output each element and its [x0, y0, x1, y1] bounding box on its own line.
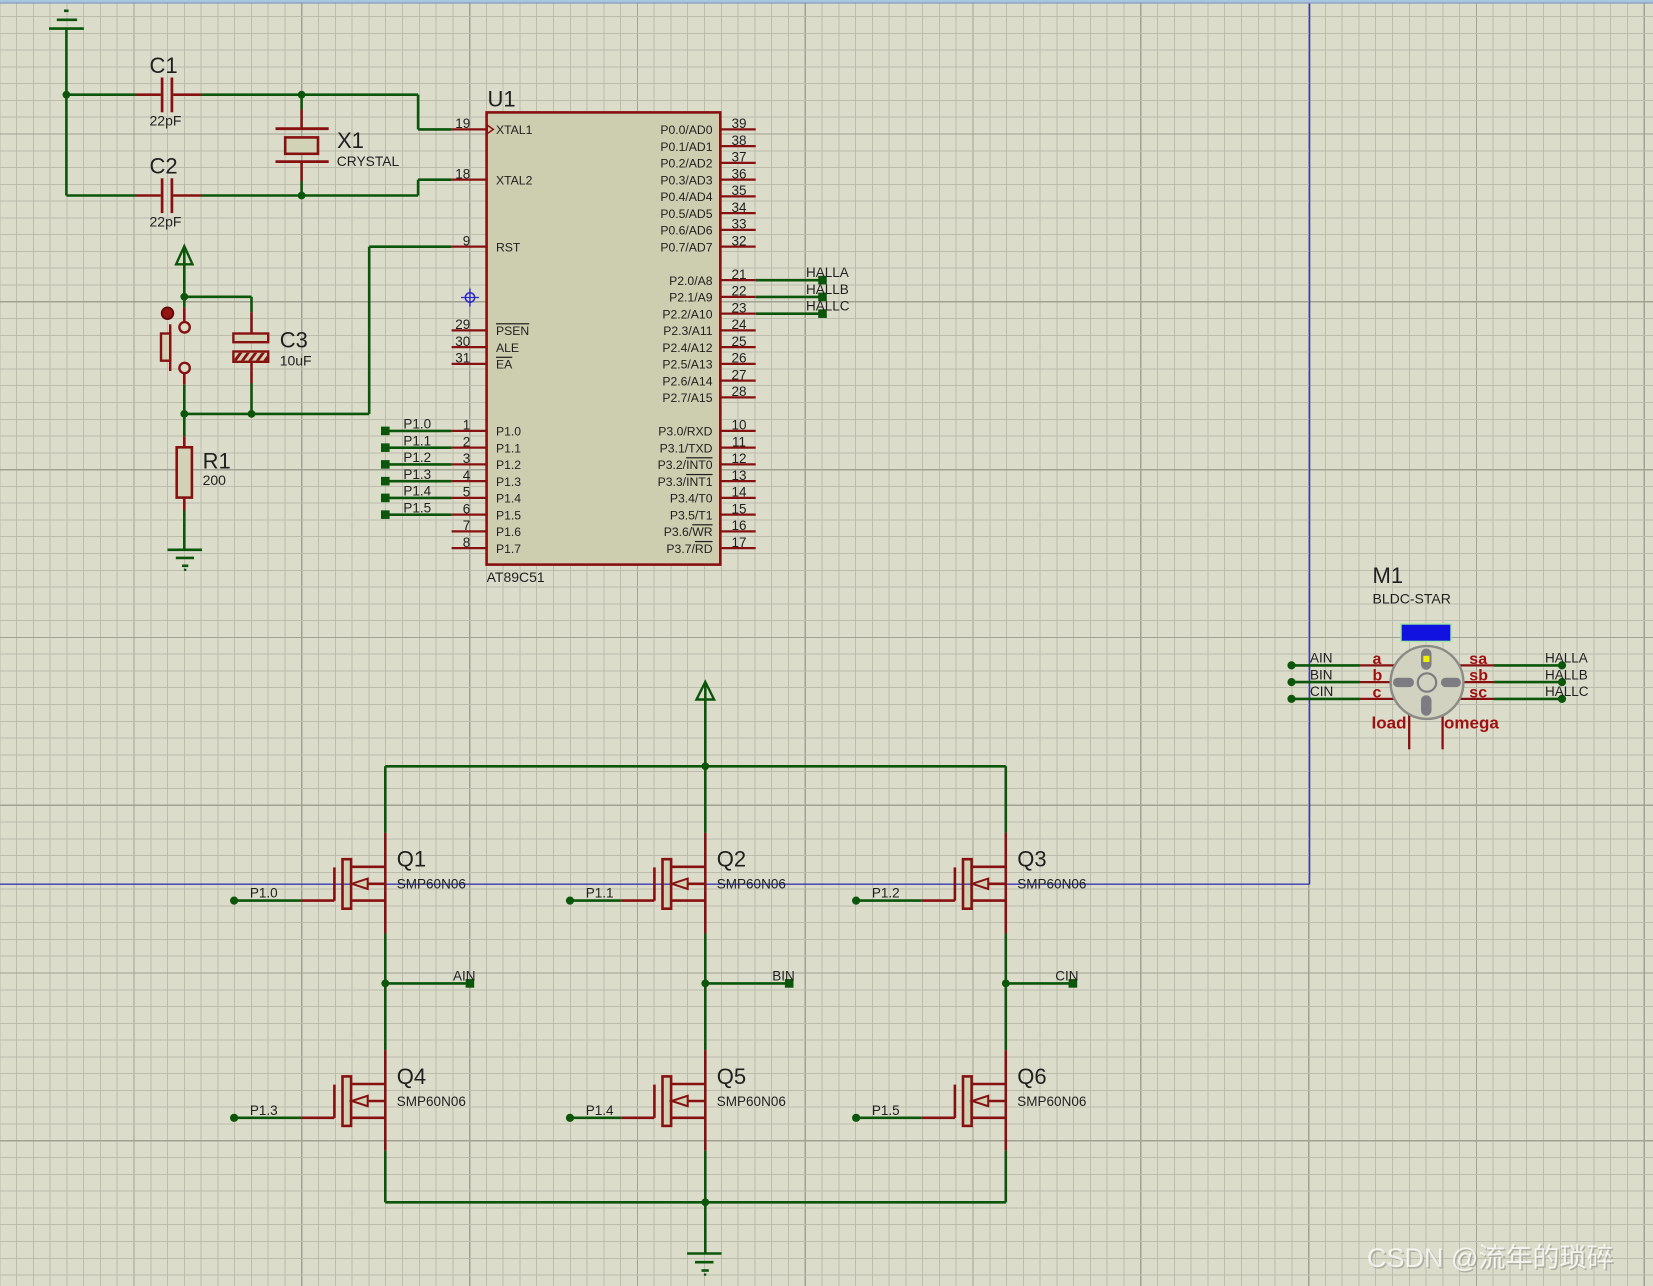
svg-text:P1.3: P1.3 — [250, 1103, 278, 1118]
svg-text:P0.2/AD2: P0.2/AD2 — [660, 157, 712, 171]
svg-text:P1.1: P1.1 — [403, 433, 431, 448]
svg-text:AIN: AIN — [1310, 651, 1333, 666]
svg-text:b: b — [1373, 668, 1383, 685]
svg-text:c: c — [1373, 685, 1382, 702]
svg-text:P2.2/A10: P2.2/A10 — [662, 307, 712, 321]
svg-text:P0.7/AD7: P0.7/AD7 — [660, 240, 712, 254]
svg-text:32: 32 — [731, 233, 746, 248]
svg-text:EA: EA — [496, 358, 513, 372]
svg-text:P2.1/A9: P2.1/A9 — [669, 291, 713, 305]
svg-text:C1: C1 — [150, 53, 178, 78]
svg-text:Q4: Q4 — [397, 1064, 426, 1089]
svg-text:sb: sb — [1469, 668, 1488, 685]
svg-text:12: 12 — [731, 451, 746, 466]
svg-text:SMP60N06: SMP60N06 — [1017, 876, 1086, 891]
svg-text:P1.0: P1.0 — [496, 425, 521, 439]
svg-text:P1.4: P1.4 — [403, 484, 431, 499]
svg-text:HALLB: HALLB — [806, 282, 849, 297]
svg-text:M1: M1 — [1373, 563, 1404, 588]
svg-text:AIN: AIN — [453, 969, 476, 984]
svg-text:P0.5/AD5: P0.5/AD5 — [660, 207, 712, 221]
svg-text:P2.3/A11: P2.3/A11 — [663, 324, 712, 338]
svg-text:SMP60N06: SMP60N06 — [1017, 1094, 1086, 1109]
svg-text:27: 27 — [731, 367, 746, 382]
svg-text:CRYSTAL: CRYSTAL — [337, 154, 400, 169]
svg-text:15: 15 — [731, 501, 746, 516]
svg-text:HALLC: HALLC — [806, 299, 850, 314]
svg-text:P3.1/TXD: P3.1/TXD — [660, 441, 713, 455]
svg-text:P0.1/AD1: P0.1/AD1 — [660, 140, 712, 154]
svg-text:39: 39 — [731, 116, 746, 131]
svg-text:22pF: 22pF — [150, 213, 182, 229]
svg-text:6: 6 — [463, 501, 471, 516]
svg-text:P2.5/A13: P2.5/A13 — [662, 358, 712, 372]
svg-text:14: 14 — [731, 485, 747, 500]
svg-text:X1: X1 — [337, 128, 364, 153]
svg-text:P1.5: P1.5 — [496, 508, 521, 522]
svg-text:Q1: Q1 — [397, 846, 426, 871]
svg-text:Q5: Q5 — [717, 1064, 746, 1089]
svg-text:R1: R1 — [203, 448, 231, 473]
svg-text:23: 23 — [731, 300, 746, 315]
svg-text:HALLB: HALLB — [1545, 667, 1588, 682]
svg-text:7: 7 — [463, 518, 471, 533]
svg-text:load: load — [1372, 713, 1407, 732]
svg-text:8: 8 — [463, 535, 471, 550]
svg-text:HALLA: HALLA — [806, 265, 849, 280]
svg-text:Q3: Q3 — [1017, 846, 1046, 871]
svg-text:BIN: BIN — [772, 969, 795, 984]
svg-text:30: 30 — [455, 334, 470, 349]
svg-text:SMP60N06: SMP60N06 — [397, 876, 466, 891]
svg-text:SMP60N06: SMP60N06 — [397, 1094, 466, 1109]
svg-text:P2.7/A15: P2.7/A15 — [662, 391, 712, 405]
svg-text:P1.1: P1.1 — [586, 886, 614, 901]
svg-text:P3.4/T0: P3.4/T0 — [670, 492, 713, 506]
svg-text:a: a — [1373, 651, 1382, 668]
svg-text:P1.2: P1.2 — [872, 886, 900, 901]
svg-text:P3.7/RD: P3.7/RD — [666, 542, 712, 556]
svg-text:CIN: CIN — [1310, 684, 1333, 699]
svg-text:10: 10 — [731, 418, 746, 433]
svg-text:2: 2 — [463, 434, 471, 449]
svg-text:17: 17 — [731, 535, 746, 550]
svg-text:13: 13 — [731, 468, 746, 483]
svg-text:Q2: Q2 — [717, 846, 746, 871]
svg-text:3: 3 — [463, 451, 471, 466]
svg-text:36: 36 — [731, 166, 746, 181]
svg-text:26: 26 — [731, 351, 746, 366]
svg-text:RST: RST — [496, 240, 521, 254]
svg-text:HALLA: HALLA — [1545, 651, 1588, 666]
svg-text:35: 35 — [731, 183, 746, 198]
svg-text:19: 19 — [455, 116, 470, 131]
svg-text:1: 1 — [463, 418, 471, 433]
svg-text:P1.0: P1.0 — [403, 417, 431, 432]
svg-text:P1.4: P1.4 — [496, 492, 521, 506]
svg-text:22pF: 22pF — [150, 113, 182, 129]
svg-text:9: 9 — [463, 233, 471, 248]
svg-text:34: 34 — [731, 200, 747, 215]
svg-text:10uF: 10uF — [280, 352, 312, 368]
svg-text:5: 5 — [463, 485, 471, 500]
svg-text:P0.0/AD0: P0.0/AD0 — [660, 123, 712, 137]
svg-text:P3.5/T1: P3.5/T1 — [670, 508, 713, 522]
svg-text:ALE: ALE — [496, 341, 519, 355]
svg-text:C2: C2 — [150, 154, 178, 179]
svg-text:SMP60N06: SMP60N06 — [717, 1094, 786, 1109]
svg-text:P1.7: P1.7 — [496, 542, 521, 556]
svg-text:11: 11 — [732, 434, 746, 449]
svg-text:28: 28 — [731, 384, 746, 399]
svg-text:C3: C3 — [280, 328, 308, 353]
svg-text:P0.4/AD4: P0.4/AD4 — [660, 190, 712, 204]
svg-text:P2.4/A12: P2.4/A12 — [662, 341, 712, 355]
svg-text:P2.0/A8: P2.0/A8 — [669, 274, 713, 288]
svg-text:P1.2: P1.2 — [403, 450, 431, 465]
svg-text:U1: U1 — [488, 87, 516, 112]
svg-text:XTAL2: XTAL2 — [496, 173, 533, 187]
svg-text:P1.3: P1.3 — [403, 467, 431, 482]
svg-text:38: 38 — [731, 133, 746, 148]
svg-text:AT89C51: AT89C51 — [487, 569, 545, 585]
svg-text:omega: omega — [1444, 713, 1499, 732]
svg-text:P0.3/AD3: P0.3/AD3 — [660, 173, 712, 187]
svg-text:P1.4: P1.4 — [586, 1103, 614, 1118]
svg-text:22: 22 — [731, 284, 746, 299]
svg-text:24: 24 — [731, 317, 747, 332]
svg-text:CIN: CIN — [1055, 969, 1078, 984]
svg-text:P1.2: P1.2 — [496, 458, 521, 472]
svg-text:29: 29 — [455, 317, 470, 332]
svg-text:XTAL1: XTAL1 — [496, 123, 533, 137]
svg-text:P1.6: P1.6 — [496, 525, 521, 539]
svg-text:31: 31 — [455, 351, 470, 366]
svg-text:P1.5: P1.5 — [872, 1103, 900, 1118]
svg-text:sa: sa — [1469, 651, 1487, 668]
svg-text:P3.6/WR: P3.6/WR — [664, 525, 713, 539]
svg-text:16: 16 — [731, 518, 746, 533]
svg-text:P1.0: P1.0 — [250, 886, 278, 901]
svg-text:P3.3/INT1: P3.3/INT1 — [658, 475, 713, 489]
svg-text:4: 4 — [463, 468, 471, 483]
svg-text:P0.6/AD6: P0.6/AD6 — [660, 224, 712, 238]
svg-text:33: 33 — [731, 217, 746, 232]
svg-text:37: 37 — [731, 150, 746, 165]
svg-text:25: 25 — [731, 334, 746, 349]
svg-text:Q6: Q6 — [1017, 1064, 1046, 1089]
svg-text:PSEN: PSEN — [496, 324, 529, 338]
svg-text:sc: sc — [1469, 685, 1487, 702]
svg-text:P1.5: P1.5 — [403, 500, 431, 515]
svg-text:P1.3: P1.3 — [496, 475, 521, 489]
svg-text:BLDC-STAR: BLDC-STAR — [1373, 591, 1451, 607]
svg-text:21: 21 — [731, 267, 746, 282]
svg-text:SMP60N06: SMP60N06 — [717, 876, 786, 891]
svg-text:200: 200 — [203, 472, 227, 488]
svg-text:HALLC: HALLC — [1545, 684, 1589, 699]
svg-text:18: 18 — [455, 166, 470, 181]
svg-text:CSDN @流年的琐碎: CSDN @流年的琐碎 — [1367, 1243, 1613, 1273]
svg-text:P3.0/RXD: P3.0/RXD — [658, 425, 712, 439]
svg-text:P2.6/A14: P2.6/A14 — [662, 374, 712, 388]
svg-text:BIN: BIN — [1310, 667, 1333, 682]
svg-text:P1.1: P1.1 — [496, 441, 521, 455]
svg-text:P3.2/INT0: P3.2/INT0 — [658, 458, 713, 472]
